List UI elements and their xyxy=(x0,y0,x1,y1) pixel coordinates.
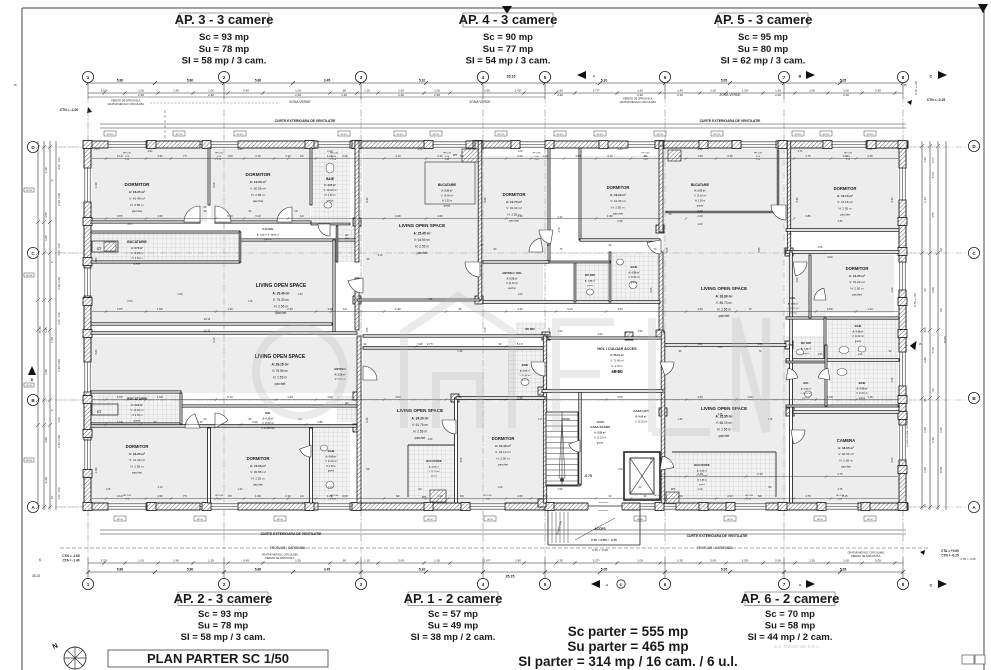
svg-text:V: 15.20 m²: V: 15.20 m² xyxy=(694,195,706,198)
svg-text:3.87²: 3.87² xyxy=(117,307,123,311)
svg-text:2.30: 2.30 xyxy=(287,307,293,311)
svg-text:6.45: 6.45 xyxy=(366,417,369,422)
svg-text:BAIE: BAIE xyxy=(631,265,638,269)
svg-text:V: 12.33 m²: V: 12.33 m² xyxy=(635,421,647,424)
top dimension lines xyxy=(88,82,903,84)
title AP5 xyxy=(718,13,808,27)
svg-text:2.40: 2.40 xyxy=(437,154,443,158)
svg-text:2.10: 2.10 xyxy=(285,154,291,158)
svg-text:1.62²: 1.62² xyxy=(157,395,163,399)
svg-text:V: 41.49 m²: V: 41.49 m² xyxy=(129,197,145,201)
svg-text:V: 85.73 m²: V: 85.73 m² xyxy=(716,301,732,305)
fold mark triangle top-center xyxy=(502,6,512,14)
wall casa lift xyxy=(624,452,660,500)
room AP4 dormitor 12.70 xyxy=(483,156,549,262)
svg-text:parchet: parchet xyxy=(789,311,797,314)
svg-text:V: 15.03 m²: V: 15.03 m² xyxy=(262,422,274,425)
svg-text:4: 4 xyxy=(482,582,485,587)
svg-text:Sc = 93 mp: Sc = 93 mp xyxy=(199,32,249,43)
room AP4 wc srv (tiled) xyxy=(577,262,608,302)
svg-text:ANTREU / HOL: ANTREU / HOL xyxy=(502,271,522,275)
svg-text:HP 90: HP 90 xyxy=(277,519,283,521)
svg-text:H: 2.50 m: H: 2.50 m xyxy=(326,466,336,468)
svg-text:3.67²: 3.67² xyxy=(117,395,123,399)
wall AP2 living bottom xyxy=(91,391,181,393)
svg-text:AP. 5 - 3 camere: AP. 5 - 3 camere xyxy=(714,12,813,27)
svg-text:C: C xyxy=(930,583,933,588)
svg-text:2.20: 2.20 xyxy=(677,93,683,97)
svg-text:3.45: 3.45 xyxy=(243,559,249,563)
svg-text:2.30: 2.30 xyxy=(197,420,203,424)
svg-text:1.00: 1.00 xyxy=(138,559,144,563)
svg-text:BUCATARIE: BUCATARIE xyxy=(691,183,709,187)
svg-text:1.70: 1.70 xyxy=(484,327,487,332)
right dimension lines xyxy=(921,141,923,510)
svg-text:70: 70 xyxy=(749,307,752,311)
svg-text:parchet: parchet xyxy=(841,464,851,468)
svg-text:1.50: 1.50 xyxy=(50,337,54,343)
svg-text:1.00: 1.00 xyxy=(434,89,440,93)
svg-text:1.00: 1.00 xyxy=(227,154,233,158)
svg-text:DORMITOR: DORMITOR xyxy=(247,456,270,461)
svg-text:3.40²: 3.40² xyxy=(395,214,401,218)
svg-text:2.00: 2.00 xyxy=(931,287,935,293)
title AP3 xyxy=(179,13,269,27)
room AP1 baie (tiled) xyxy=(508,348,542,396)
svg-text:gresie: gresie xyxy=(697,204,704,207)
svg-text:HP 90: HP 90 xyxy=(867,519,873,521)
svg-text:1.30: 1.30 xyxy=(227,307,233,311)
svg-text:ZONA VERDE: ZONA VERDE xyxy=(289,100,311,104)
svg-text:BUCATARIE: BUCATARIE xyxy=(127,397,147,401)
svg-text:5.10: 5.10 xyxy=(227,395,233,399)
svg-text:3.60: 3.60 xyxy=(95,349,98,354)
svg-text:62²: 62² xyxy=(366,468,370,471)
svg-text:3.52²: 3.52² xyxy=(101,89,108,93)
svg-text:HP 0.90: HP 0.90 xyxy=(533,153,542,155)
svg-text:D: D xyxy=(31,378,34,382)
svg-text:1.00: 1.00 xyxy=(548,327,551,332)
svg-text:1.30: 1.30 xyxy=(677,559,683,563)
windows bottom wall xyxy=(108,502,146,510)
svg-text:97²: 97² xyxy=(228,494,232,498)
svg-text:4.90: 4.90 xyxy=(157,154,163,158)
room AP4 dormitor 16.20 xyxy=(582,156,659,240)
svg-text:V: 41.18 m²: V: 41.18 m² xyxy=(837,200,852,204)
svg-text:6': 6' xyxy=(620,583,623,587)
svg-text:1: 1 xyxy=(87,75,90,80)
svg-text:LIVING OPEN SPACE: LIVING OPEN SPACE xyxy=(399,223,445,228)
svg-text:1.00: 1.00 xyxy=(428,438,433,441)
svg-text:6.10 parchet: 6.10 parchet xyxy=(262,427,275,430)
svg-text:CTN = -0.25: CTN = -0.25 xyxy=(960,557,976,561)
svg-text:DORMITOR: DORMITOR xyxy=(492,436,515,441)
svg-text:90: 90 xyxy=(939,308,943,312)
windows top wall xyxy=(108,140,146,148)
svg-text:2.20: 2.20 xyxy=(138,93,144,97)
room AP6 hol xyxy=(786,362,826,406)
svg-text:Sc = 90 mp: Sc = 90 mp xyxy=(483,32,533,43)
svg-text:3.40²: 3.40² xyxy=(607,214,613,218)
svg-text:5.05: 5.05 xyxy=(601,568,608,572)
svg-text:5.60: 5.60 xyxy=(931,347,935,353)
svg-text:3.87²: 3.87² xyxy=(117,214,123,218)
svg-text:2.00: 2.00 xyxy=(775,559,781,563)
svg-text:gresie: gresie xyxy=(855,340,862,343)
wall AP3 living right xyxy=(333,240,335,333)
svg-text:1.58: 1.58 xyxy=(558,488,563,491)
svg-text:1.42²: 1.42² xyxy=(515,89,522,93)
svg-text:1.50: 1.50 xyxy=(57,417,61,423)
svg-text:4.73: 4.73 xyxy=(558,227,561,232)
svg-text:2.20: 2.20 xyxy=(557,93,563,97)
svg-text:Sc parter = 555 mp: Sc parter = 555 mp xyxy=(568,624,688,639)
svg-text:4.55: 4.55 xyxy=(44,212,48,218)
svg-text:C: C xyxy=(930,74,933,79)
wall AP1 bucatarie nook xyxy=(407,445,409,497)
svg-text:S.C. GEOSTUD S.R.L.: S.C. GEOSTUD S.R.L. xyxy=(774,644,820,649)
svg-text:3.45: 3.45 xyxy=(838,220,843,223)
svg-text:35.15: 35.15 xyxy=(506,575,515,579)
svg-text:parchet: parchet xyxy=(613,211,623,215)
svg-text:PERETE DE SPRIJIN B.A.: PERETE DE SPRIJIN B.A. xyxy=(851,555,881,558)
svg-text:HP 110: HP 110 xyxy=(823,134,830,136)
wall party AP4/AP5 xyxy=(659,141,663,232)
svg-text:2.20: 2.20 xyxy=(57,200,61,206)
svg-text:PERETE DE SPRIJIN B.A.: PERETE DE SPRIJIN B.A. xyxy=(265,557,295,560)
svg-text:HP 110: HP 110 xyxy=(26,275,32,277)
svg-text:CAMERA: CAMERA xyxy=(837,438,855,443)
svg-text:HP 110: HP 110 xyxy=(795,134,802,136)
svg-text:CURTE EXTERIOARA DE VENTILATIE: CURTE EXTERIOARA DE VENTILATIE xyxy=(687,534,749,538)
svg-text:Su = 58 mp: Su = 58 mp xyxy=(765,621,816,632)
svg-text:2.20: 2.20 xyxy=(208,93,214,97)
wall AP2 dorm partitions xyxy=(208,428,211,503)
svg-text:1.00: 1.00 xyxy=(718,346,723,349)
svg-text:4.50: 4.50 xyxy=(460,457,463,462)
svg-text:1.22²: 1.22² xyxy=(742,89,749,93)
svg-text:3.60: 3.60 xyxy=(95,257,98,262)
svg-text:V: 11.48 m²: V: 11.48 m² xyxy=(519,374,530,377)
svg-text:1.15: 1.15 xyxy=(891,377,894,382)
svg-text:V: 41.36 m²: V: 41.36 m² xyxy=(610,199,625,203)
svg-text:HP 0.90: HP 0.90 xyxy=(484,495,493,497)
svg-text:H: 2.50 m: H: 2.50 m xyxy=(442,200,452,203)
wall AP2 dorm row top xyxy=(91,425,357,427)
svg-text:2.00: 2.00 xyxy=(698,210,703,213)
svg-text:1.23: 1.23 xyxy=(891,287,894,292)
svg-text:gresie: gresie xyxy=(631,281,638,284)
left dimension lines xyxy=(37,141,39,510)
svg-text:12²: 12² xyxy=(294,210,298,213)
svg-text:CTN = -0.25: CTN = -0.25 xyxy=(927,98,946,102)
room AP2 bucatarie xyxy=(91,394,179,424)
svg-text:3.85: 3.85 xyxy=(805,214,811,218)
CT box AP1 xyxy=(430,490,446,502)
CT box AP3 kitchen xyxy=(92,241,118,252)
svg-text:2.00: 2.00 xyxy=(57,359,61,365)
svg-text:V: 10.90 m²: V: 10.90 m² xyxy=(628,276,640,279)
svg-text:V: 10.20 m²: V: 10.20 m² xyxy=(324,189,337,192)
svg-text:A: 5.50 m²: A: 5.50 m² xyxy=(697,469,708,472)
svg-text:HP 110: HP 110 xyxy=(714,134,721,136)
wall AP5 dorm 12.25 box xyxy=(786,251,899,254)
title block plan parter xyxy=(108,650,328,667)
svg-text:2.85: 2.85 xyxy=(317,420,323,424)
svg-text:1.00: 1.00 xyxy=(677,494,683,498)
svg-text:WC: WC xyxy=(345,235,349,237)
room AP2 living 29.15 xyxy=(91,337,357,393)
svg-text:2.00: 2.00 xyxy=(923,357,927,363)
svg-text:4.42²: 4.42² xyxy=(484,197,487,203)
svg-text:LIVING OPEN SPACE: LIVING OPEN SPACE xyxy=(256,283,307,289)
svg-text:ZONA VERDE: ZONA VERDE xyxy=(719,93,741,97)
svg-text:3.45: 3.45 xyxy=(324,568,331,572)
exterior wall left xyxy=(84,141,91,510)
svg-text:HP 110: HP 110 xyxy=(498,134,505,136)
svg-text:gresie: gresie xyxy=(699,483,706,486)
svg-text:A: 4.00 m²: A: 4.00 m² xyxy=(324,183,336,187)
svg-text:1.50: 1.50 xyxy=(618,468,623,471)
room AP2 dormitor 12.00 xyxy=(211,428,310,503)
svg-text:1.02: 1.02 xyxy=(796,277,799,282)
svg-text:H: 2.50 m: H: 2.50 m xyxy=(695,200,705,203)
svg-text:parchet: parchet xyxy=(840,212,850,216)
svg-text:V: 21.50 m²: V: 21.50 m² xyxy=(506,282,518,285)
svg-text:5.00: 5.00 xyxy=(252,420,258,424)
courtyard boundary top xyxy=(100,123,906,125)
svg-text:gresie: gresie xyxy=(803,352,810,355)
svg-text:77²: 77² xyxy=(183,494,187,498)
svg-text:5.10: 5.10 xyxy=(255,214,261,218)
svg-text:4.60: 4.60 xyxy=(697,307,703,311)
svg-text:HOL: HOL xyxy=(790,296,796,300)
svg-text:3.77²: 3.77² xyxy=(427,342,433,346)
svg-text:A: 25.45 m²: A: 25.45 m² xyxy=(413,231,430,235)
section arrow D left xyxy=(28,366,36,375)
svg-text:HP 110: HP 110 xyxy=(557,134,564,136)
svg-text:3.85: 3.85 xyxy=(818,246,823,249)
svg-text:15,: 15, xyxy=(923,503,927,507)
svg-text:HP 110: HP 110 xyxy=(107,134,114,136)
svg-text:A: 12.00 m²: A: 12.00 m² xyxy=(250,464,266,468)
svg-text:68: 68 xyxy=(459,307,462,311)
svg-text:V: 10.02 m²: V: 10.02 m² xyxy=(852,335,864,338)
svg-text:A: 2.60 m²: A: 2.60 m² xyxy=(801,387,812,390)
svg-text:2.00: 2.00 xyxy=(923,327,927,333)
svg-text:parchet: parchet xyxy=(719,314,730,318)
svg-text:HP 0.90: HP 0.90 xyxy=(754,153,763,155)
svg-text:1: 1 xyxy=(87,582,90,587)
svg-text:parchet: parchet xyxy=(498,462,508,466)
svg-text:V: 31.20 m²: V: 31.20 m² xyxy=(849,280,864,284)
wall central corridor xyxy=(91,323,332,325)
svg-text:2.00: 2.00 xyxy=(57,277,61,283)
room AP5 bucatarie xyxy=(666,150,778,212)
svg-text:-0.75: -0.75 xyxy=(584,474,592,478)
svg-text:2.00: 2.00 xyxy=(342,154,348,158)
svg-text:5.17²: 5.17² xyxy=(931,157,935,163)
svg-text:Su = 78 mp: Su = 78 mp xyxy=(199,44,250,55)
svg-text:V: 30.58 m²: V: 30.58 m² xyxy=(250,187,266,191)
svg-text:3.60: 3.60 xyxy=(617,307,623,311)
svg-text:68: 68 xyxy=(459,395,462,399)
wall AP4 dorm bottom xyxy=(483,261,549,263)
svg-text:SI parter = 314 mp / 16 cam. /: SI parter = 314 mp / 16 cam. / 6 u.l. xyxy=(518,654,737,669)
svg-text:1.30: 1.30 xyxy=(434,559,440,563)
svg-text:2.55: 2.55 xyxy=(809,559,815,563)
svg-text:3.40²: 3.40² xyxy=(617,220,623,223)
svg-text:DORMITOR: DORMITOR xyxy=(846,266,869,271)
svg-text:A: 16.15 m²: A: 16.15 m² xyxy=(837,194,853,198)
room AP3 living 29.40 xyxy=(91,240,332,322)
svg-text:3.52²: 3.52² xyxy=(101,559,108,563)
svg-text:3.77²: 3.77² xyxy=(593,89,600,93)
room AP5 dormitor 16.15 xyxy=(786,148,898,230)
watermark logo xyxy=(256,296,766,432)
title AP2 xyxy=(178,592,268,606)
svg-text:3.27²: 3.27² xyxy=(593,559,600,563)
svg-text:HP 110: HP 110 xyxy=(433,134,440,136)
svg-text:4.50: 4.50 xyxy=(575,154,581,158)
lift X xyxy=(630,458,654,494)
svg-text:2.20: 2.20 xyxy=(398,93,404,97)
svg-text:Su = 77 mp: Su = 77 mp xyxy=(483,44,534,55)
svg-text:BAIE: BAIE xyxy=(522,363,529,367)
room AP3 dormitor 16.25 xyxy=(91,148,207,222)
casa scarii treads xyxy=(546,412,578,485)
svg-text:6.25: 6.25 xyxy=(939,427,943,433)
svg-text:5.80: 5.80 xyxy=(255,568,262,572)
svg-text:HOL: HOL xyxy=(265,411,271,415)
svg-text:1.00: 1.00 xyxy=(843,559,849,563)
svg-text:1.05: 1.05 xyxy=(106,488,111,491)
svg-text:4.30: 4.30 xyxy=(238,148,243,151)
svg-text:5,: 5, xyxy=(50,179,54,181)
svg-text:2.20: 2.20 xyxy=(775,93,781,97)
entrance door opening xyxy=(588,502,622,510)
svg-text:CTA = CTN = -0.75: CTA = CTN = -0.75 xyxy=(591,538,617,542)
wall AP4 dorm partition xyxy=(548,148,550,262)
svg-text:BUCATARIE: BUCATARIE xyxy=(127,240,147,244)
svg-text:2.30: 2.30 xyxy=(618,148,623,151)
svg-text:1.40²: 1.40² xyxy=(457,350,463,353)
svg-text:parchet: parchet xyxy=(852,292,862,296)
section marker arrows top xyxy=(577,71,586,79)
svg-text:V: 10.57 m²: V: 10.57 m² xyxy=(787,307,798,310)
svg-text:1.15: 1.15 xyxy=(364,89,370,93)
room AP1 living 24.20 xyxy=(363,348,545,405)
svg-text:A: 12.70 m²: A: 12.70 m² xyxy=(506,200,522,204)
HP110 left markers xyxy=(24,188,34,192)
svg-text:H: 2.55 m: H: 2.55 m xyxy=(130,203,144,207)
wall AP3 dorm row bottom xyxy=(91,221,200,223)
svg-text:parchet: parchet xyxy=(132,470,142,474)
svg-text:12²: 12² xyxy=(300,154,304,158)
svg-text:TROTUAR / CAROSABIL: TROTUAR / CAROSABIL xyxy=(270,546,307,550)
svg-text:CASA LIFT: CASA LIFT xyxy=(633,409,649,413)
frame corner triangle top-right xyxy=(978,4,988,13)
svg-text:2.20: 2.20 xyxy=(57,284,61,290)
svg-text:AP. 3 - 3 camere: AP. 3 - 3 camere xyxy=(175,12,274,27)
svg-text:15.80: 15.80 xyxy=(943,336,947,344)
wall party AP3/AP4 xyxy=(355,141,359,262)
svg-text:A: 16.25 m²: A: 16.25 m² xyxy=(129,452,145,456)
svg-text:35.15: 35.15 xyxy=(507,75,516,79)
svg-text:H: 2.55 m: H: 2.55 m xyxy=(130,464,144,468)
svg-text:5.80: 5.80 xyxy=(117,79,124,83)
svg-text:parchet: parchet xyxy=(253,482,263,486)
svg-text:HP 90: HP 90 xyxy=(117,519,123,521)
svg-text:parchet: parchet xyxy=(275,382,286,386)
svg-text:CTA = -1.40: CTA = -1.40 xyxy=(62,559,79,563)
svg-text:H: 2.55 m: H: 2.55 m xyxy=(611,205,625,209)
svg-text:ZONA VERDE: ZONA VERDE xyxy=(469,100,491,104)
svg-text:1.40: 1.40 xyxy=(923,427,927,433)
svg-text:1.62²: 1.62² xyxy=(177,293,183,296)
svg-text:2.20: 2.20 xyxy=(710,89,716,93)
svg-text:±0.00: ±0.00 xyxy=(562,417,570,421)
svg-text:AP. 4 - 3 camere: AP. 4 - 3 camere xyxy=(459,12,558,27)
svg-text:H: 2.55 m: H: 2.55 m xyxy=(838,206,852,210)
svg-text:AP. 1 - 2 camere: AP. 1 - 2 camere xyxy=(404,591,503,606)
svg-text:2.00: 2.00 xyxy=(517,494,523,498)
svg-text:1.02²: 1.02² xyxy=(255,494,261,498)
windows left wall xyxy=(83,168,91,202)
svg-text:1.17: 1.17 xyxy=(538,418,543,421)
svg-text:2.20: 2.20 xyxy=(295,93,301,97)
svg-text:2.20: 2.20 xyxy=(843,93,849,97)
svg-text:1.50: 1.50 xyxy=(698,148,703,151)
svg-text:1.00: 1.00 xyxy=(747,395,753,399)
svg-text:1.00: 1.00 xyxy=(698,488,703,491)
svg-text:4.50: 4.50 xyxy=(44,437,48,443)
svg-text:1.00: 1.00 xyxy=(843,89,849,93)
svg-text:V: 41.49 m²: V: 41.49 m² xyxy=(129,458,144,462)
svg-text:V: 30.58 m²: V: 30.58 m² xyxy=(250,470,265,474)
svg-text:2.67²: 2.67² xyxy=(484,559,491,563)
svg-text:2.00: 2.00 xyxy=(398,559,404,563)
svg-text:1.15: 1.15 xyxy=(364,559,370,563)
room AP1 wc srv (tiled) xyxy=(516,322,544,336)
svg-text:HP 110: HP 110 xyxy=(341,134,348,136)
svg-text:12²: 12² xyxy=(300,494,304,498)
svg-text:1.52²: 1.52² xyxy=(742,559,749,563)
svg-text:parchet: parchet xyxy=(253,199,263,203)
title AP4 xyxy=(463,13,553,27)
svg-text:4: 4 xyxy=(482,75,485,80)
svg-text:gresie: gresie xyxy=(328,470,335,473)
wall AP5/AP6 band xyxy=(786,359,899,362)
wall AP1 dorm xyxy=(455,398,458,503)
wall AP3 dorm partition 1 xyxy=(208,148,210,205)
svg-text:35.15: 35.15 xyxy=(32,574,40,578)
svg-text:1.00: 1.00 xyxy=(208,89,214,93)
room AP5 living 33.60 xyxy=(663,148,783,345)
svg-text:70: 70 xyxy=(679,154,682,158)
entrance acces ramp xyxy=(547,510,549,545)
grid bubbles top xyxy=(82,71,93,82)
svg-text:WC SRV: WC SRV xyxy=(525,328,535,331)
svg-text:BUCATARIE: BUCATARIE xyxy=(694,463,710,467)
svg-text:A: 16.20 m²: A: 16.20 m² xyxy=(610,193,626,197)
svg-text:1.62²: 1.62² xyxy=(157,307,163,311)
svg-text:5: 5 xyxy=(544,75,547,80)
svg-text:HP 110: HP 110 xyxy=(26,460,32,462)
svg-text:2.15: 2.15 xyxy=(842,494,848,498)
svg-text:Sc = 70 mp: Sc = 70 mp xyxy=(765,609,815,620)
svg-text:CTA = +0.00: CTA = +0.00 xyxy=(941,549,959,553)
